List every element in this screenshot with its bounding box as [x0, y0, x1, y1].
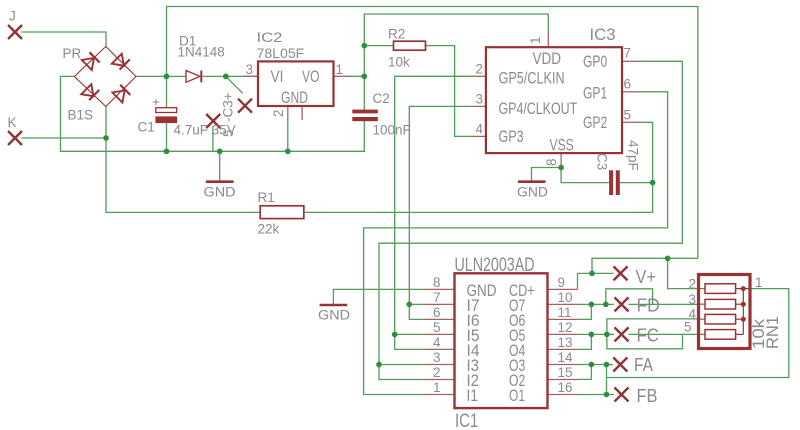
wire FA FB link vertical: [606, 365, 608, 395]
wire dangling stub to GND rail: [212, 126, 214, 151]
ground GND3 bar: [320, 304, 348, 307]
RN1 bus junction dots: [741, 286, 746, 322]
pin stub ULN pin13: [548, 348, 578, 350]
svg-text:22k: 22k: [258, 222, 280, 237]
svg-text:PR: PR: [63, 46, 82, 61]
capacitor C1 polarized: [156, 108, 177, 123]
RN1 resistor r3: [705, 314, 736, 324]
wire GP5 pin2 net to ULN I5 I4: [395, 76, 472, 334]
svg-text:1: 1: [433, 380, 441, 395]
svg-text:8: 8: [433, 275, 441, 290]
svg-text:3: 3: [246, 62, 254, 77]
svg-text:8: 8: [544, 158, 559, 166]
wire GP0 net branch to I3 and I2: [379, 365, 425, 380]
pin stub ULN pin6: [425, 318, 455, 320]
wire FD net line under text to RN1 pin3: [629, 303, 698, 305]
svg-text:5: 5: [433, 320, 441, 335]
svg-text:IC2: IC2: [257, 30, 283, 45]
pin stub IC3 pin2: [471, 75, 486, 77]
wire FB net pin16: [578, 394, 615, 396]
IC3 box: [486, 47, 622, 153]
svg-text:5: 5: [624, 108, 632, 123]
unconnected mark J: [8, 25, 22, 39]
node FA link junction: [604, 362, 610, 368]
svg-text:GND: GND: [281, 88, 308, 107]
pin stub ULN pin8: [425, 288, 455, 290]
pin stub IC2 pin2: [287, 106, 289, 120]
svg-text:3: 3: [689, 292, 697, 307]
wire FC detour to RN1 pin4: [607, 319, 698, 349]
wire ULN pin9 up to V+ node: [578, 273, 614, 289]
svg-text:-C3+: -C3+: [221, 92, 236, 122]
svg-text:5: 5: [684, 320, 692, 335]
pin stub IC2 pin3: [244, 75, 259, 77]
svg-text:VDD: VDD: [533, 49, 562, 68]
unconnected mark FC: [615, 327, 629, 341]
pin stub IC3 pin8 VSS: [560, 153, 562, 167]
svg-text:7: 7: [624, 46, 632, 61]
wire GP4 net branch to I7 and I6: [409, 304, 425, 319]
wire R1 right to GP2 riser and C3 node: [304, 122, 653, 212]
pin lead RN1 r1 left: [698, 288, 705, 290]
svg-text:3: 3: [433, 350, 441, 365]
svg-text:GP0: GP0: [583, 52, 607, 71]
wire FC net pins 12 13: [578, 333, 615, 335]
RN1 resistor r2: [705, 299, 736, 309]
wire FA net pins 14 15: [578, 364, 614, 366]
RN1 box: [699, 275, 751, 349]
svg-text:1N4148: 1N4148: [178, 45, 225, 60]
svg-text:9: 9: [558, 275, 566, 290]
svg-text:13: 13: [558, 335, 573, 350]
node IC2 pin2 GND rail: [285, 148, 291, 154]
node I3 I2 junction: [376, 362, 382, 368]
wire bridge plus output to D1 and C1 node: [136, 75, 186, 77]
IC2 78L05F box: [258, 61, 334, 106]
capacitor C2: [352, 110, 378, 122]
svg-text:IC1: IC1: [455, 411, 478, 430]
svg-text:GP3: GP3: [499, 127, 524, 146]
svg-text:GND: GND: [517, 185, 548, 200]
wire top unregulated V+ rail: [167, 7, 698, 259]
pin stub ULN pin10: [548, 303, 578, 305]
svg-text:K: K: [8, 115, 17, 130]
svg-text:10k: 10k: [388, 55, 410, 70]
svg-text:4: 4: [433, 335, 441, 350]
pin lead RN1 r2 left: [698, 303, 705, 305]
unconnected mark FA: [613, 358, 627, 372]
ground GND1 bar: [206, 180, 234, 183]
pin stub ULN pin5: [425, 333, 455, 335]
svg-text:B1S: B1S: [68, 108, 94, 123]
svg-text:O1: O1: [509, 386, 525, 405]
svg-text:7: 7: [433, 290, 441, 305]
node GND1 rail junction: [217, 148, 223, 154]
wire 5V to R2 left: [364, 45, 393, 47]
wire C1 top lead: [166, 76, 168, 107]
node VSS junction: [558, 165, 564, 171]
svg-text:FC: FC: [637, 325, 660, 346]
svg-text:J: J: [9, 9, 16, 24]
svg-text:FD: FD: [637, 295, 660, 316]
node I5 I4 junction: [392, 332, 398, 338]
node C3 GP2 junction: [650, 180, 656, 186]
node D1 cathode junction: [223, 74, 229, 80]
svg-text:2: 2: [689, 277, 697, 292]
svg-text:6: 6: [433, 305, 441, 320]
bridge diode top-left: [82, 52, 100, 70]
unconnected mark FD: [615, 297, 629, 311]
svg-text:15: 15: [558, 365, 573, 380]
svg-text:RN1: RN1: [763, 316, 782, 349]
wire bridge bottom vertex down to R1 line: [106, 107, 260, 213]
svg-text:1: 1: [755, 275, 763, 290]
svg-text:1: 1: [528, 36, 543, 44]
wire C1 bottom lead: [166, 123, 168, 152]
svg-text:VI: VI: [271, 67, 284, 86]
pin stub ULN pin1: [425, 394, 455, 396]
svg-text:C1: C1: [138, 120, 155, 135]
node K bridge junction: [103, 135, 109, 141]
wire 5V link IC2 output to IC3 VDD: [364, 14, 548, 46]
svg-text:100nF: 100nF: [373, 123, 411, 138]
wire V+ node up to rail and to RN1 pin2: [592, 258, 698, 273]
node FC detour junction: [604, 332, 610, 338]
node C1 bottom GND rail: [164, 148, 170, 154]
pin stub ULN pin15: [548, 379, 578, 381]
svg-text:I1: I1: [467, 386, 479, 405]
IC1 ULN2003AD box: [455, 273, 548, 408]
svg-text:16: 16: [558, 380, 573, 395]
node FD pin11 junction: [589, 302, 595, 308]
pin stub IC3 pin4: [471, 135, 486, 137]
ground GND2 bar: [518, 180, 546, 183]
svg-text:C2: C2: [373, 91, 390, 106]
svg-text:14: 14: [558, 350, 574, 365]
svg-text:GP2: GP2: [583, 113, 607, 132]
node 5V R2 junction: [361, 43, 367, 49]
capacitor C3: [609, 170, 620, 195]
unconnected mark K: [8, 131, 22, 145]
svg-text:4: 4: [476, 122, 484, 137]
pin stub ULN pin3: [425, 364, 455, 366]
pin stub IC3 pin5 GP2: [622, 121, 637, 123]
svg-text:11: 11: [558, 305, 572, 320]
wire C3 right plate to GP2 riser: [620, 182, 653, 184]
wire K input: [22, 137, 107, 139]
pin stub ULN pin11: [548, 318, 578, 320]
svg-text:VO: VO: [302, 67, 320, 86]
svg-text:2: 2: [433, 365, 441, 380]
node bridge plus C1 D1 junction: [164, 74, 170, 80]
svg-text:10: 10: [558, 290, 573, 305]
svg-text:+: +: [152, 95, 160, 110]
wire GP1 pin6 wrap to ULN I1: [364, 92, 668, 395]
RN1 resistor r1: [705, 284, 736, 294]
wire ULN pin15 riser to FA: [578, 365, 592, 380]
resistor R1 22k: [260, 206, 304, 219]
svg-text:R1: R1: [258, 190, 275, 205]
unconnected mark FB: [615, 388, 629, 402]
pin stub ULN pin7: [425, 303, 455, 305]
wire ULN pin11 riser to FD: [578, 304, 592, 319]
svg-text:2: 2: [271, 109, 286, 117]
unconnected mark V+: [614, 266, 628, 280]
svg-text:FB: FB: [637, 385, 658, 406]
pin stub ULN pin16: [548, 394, 578, 396]
pin stub IC3 pin3: [471, 105, 486, 107]
diode D1 1N4148: [186, 71, 201, 83]
pin stub ULN pin9: [548, 288, 578, 290]
svg-text:GND: GND: [318, 308, 350, 323]
wire ULN pin8 to GND3: [333, 289, 424, 304]
node FD detour junction: [603, 302, 609, 308]
pin stub IC2 pin1: [334, 75, 349, 77]
node V+ pin9 junction: [589, 271, 595, 277]
wire GP4 pin3 net to ULN I7 I6: [409, 106, 472, 304]
svg-text:5: 5: [221, 129, 236, 137]
wire R2 right to IC3 GP3 pin4: [426, 46, 472, 137]
bridge diode top-right: [112, 54, 130, 70]
wire RN1 pin1 return to FB: [607, 289, 789, 378]
wire FD net pins 10 11 to RN1 pin3: [578, 303, 615, 305]
svg-text:1: 1: [336, 62, 344, 77]
pin stub ULN pin2: [425, 379, 455, 381]
wire V+ branch down to RN1 pin2: [668, 258, 698, 288]
wire bridge minus to GND rail: [61, 76, 365, 151]
svg-text:ULN2003AD: ULN2003AD: [455, 255, 535, 276]
svg-text:GP5/CLKIN: GP5/CLKIN: [499, 69, 565, 88]
resistor R2 10k: [394, 41, 426, 50]
svg-text:12: 12: [558, 320, 573, 335]
node FC pin13 junction: [589, 332, 595, 338]
svg-text:IC3: IC3: [590, 25, 616, 44]
RN1 common bus: [736, 289, 751, 335]
wire VSS to GND2: [532, 168, 562, 182]
pin stub ULN pin14: [548, 364, 578, 366]
svg-text:47pF: 47pF: [626, 140, 641, 171]
bridge rectifier B1S diamond outline: [74, 47, 136, 107]
node FB junction: [604, 392, 610, 398]
node V+ rail RN1 junction: [665, 255, 671, 261]
wire FD detour loop: [606, 289, 653, 305]
svg-text:C3: C3: [595, 153, 610, 170]
wire IC2 pin1 to 5V node: [347, 75, 364, 77]
wire FC line under text to RN1 pin5: [629, 333, 698, 335]
svg-text:GP1: GP1: [583, 84, 607, 103]
bridge diode bottom-right: [112, 85, 130, 103]
pin stub IC3 pin6 GP1: [622, 91, 637, 93]
wire dangling diagonal at IC2 input node: [226, 76, 243, 93]
wire ULN pin13 riser to FC: [578, 334, 592, 349]
pin stub IC3 pin1 VDD: [547, 33, 549, 48]
svg-text:2: 2: [476, 62, 484, 77]
pin stub IC3 pin7 GP0: [622, 60, 637, 62]
wire GND1 stem: [219, 151, 221, 181]
pin lead RN1 r3 left: [698, 318, 705, 320]
svg-text:VSS: VSS: [550, 136, 574, 155]
unconnected mark near C3 label lower: [206, 114, 220, 128]
node I7 I6 junction: [406, 302, 412, 308]
node FA pin15 junction: [589, 362, 595, 368]
pin stub ULN pin4: [425, 348, 455, 350]
svg-text:GND: GND: [204, 185, 236, 200]
wire GP5 net branch to I5 and I4: [395, 334, 425, 349]
svg-text:V+: V+: [636, 266, 657, 287]
pin lead RN1 r4 left: [698, 333, 705, 335]
wire D1 cathode to IC2 VI node: [203, 75, 259, 77]
pin stub IC2 gnd pin: [301, 106, 303, 120]
wire J input to bridge top: [22, 32, 107, 47]
svg-text:FA: FA: [634, 354, 654, 375]
pin stub ULN pin12: [548, 333, 578, 335]
bridge diode bottom-left: [81, 84, 99, 100]
wire IC2 pin2 to GND rail: [287, 119, 289, 151]
svg-text:GP4/CLKOUT: GP4/CLKOUT: [499, 99, 578, 118]
wire GP0 pin7 wrap to ULN I3 I2: [379, 61, 682, 364]
RN1 resistor r4: [705, 330, 736, 340]
svg-text:6: 6: [624, 77, 632, 92]
node 5V IC2 output junction: [361, 73, 367, 79]
wire VSS to C3 left plate: [561, 168, 609, 183]
svg-text:R2: R2: [388, 27, 405, 42]
svg-text:78L05F: 78L05F: [257, 46, 305, 61]
unconnected mark near C3 label upper: [238, 99, 252, 113]
svg-text:3: 3: [476, 92, 484, 107]
wire 5V node down to C2: [363, 46, 365, 110]
